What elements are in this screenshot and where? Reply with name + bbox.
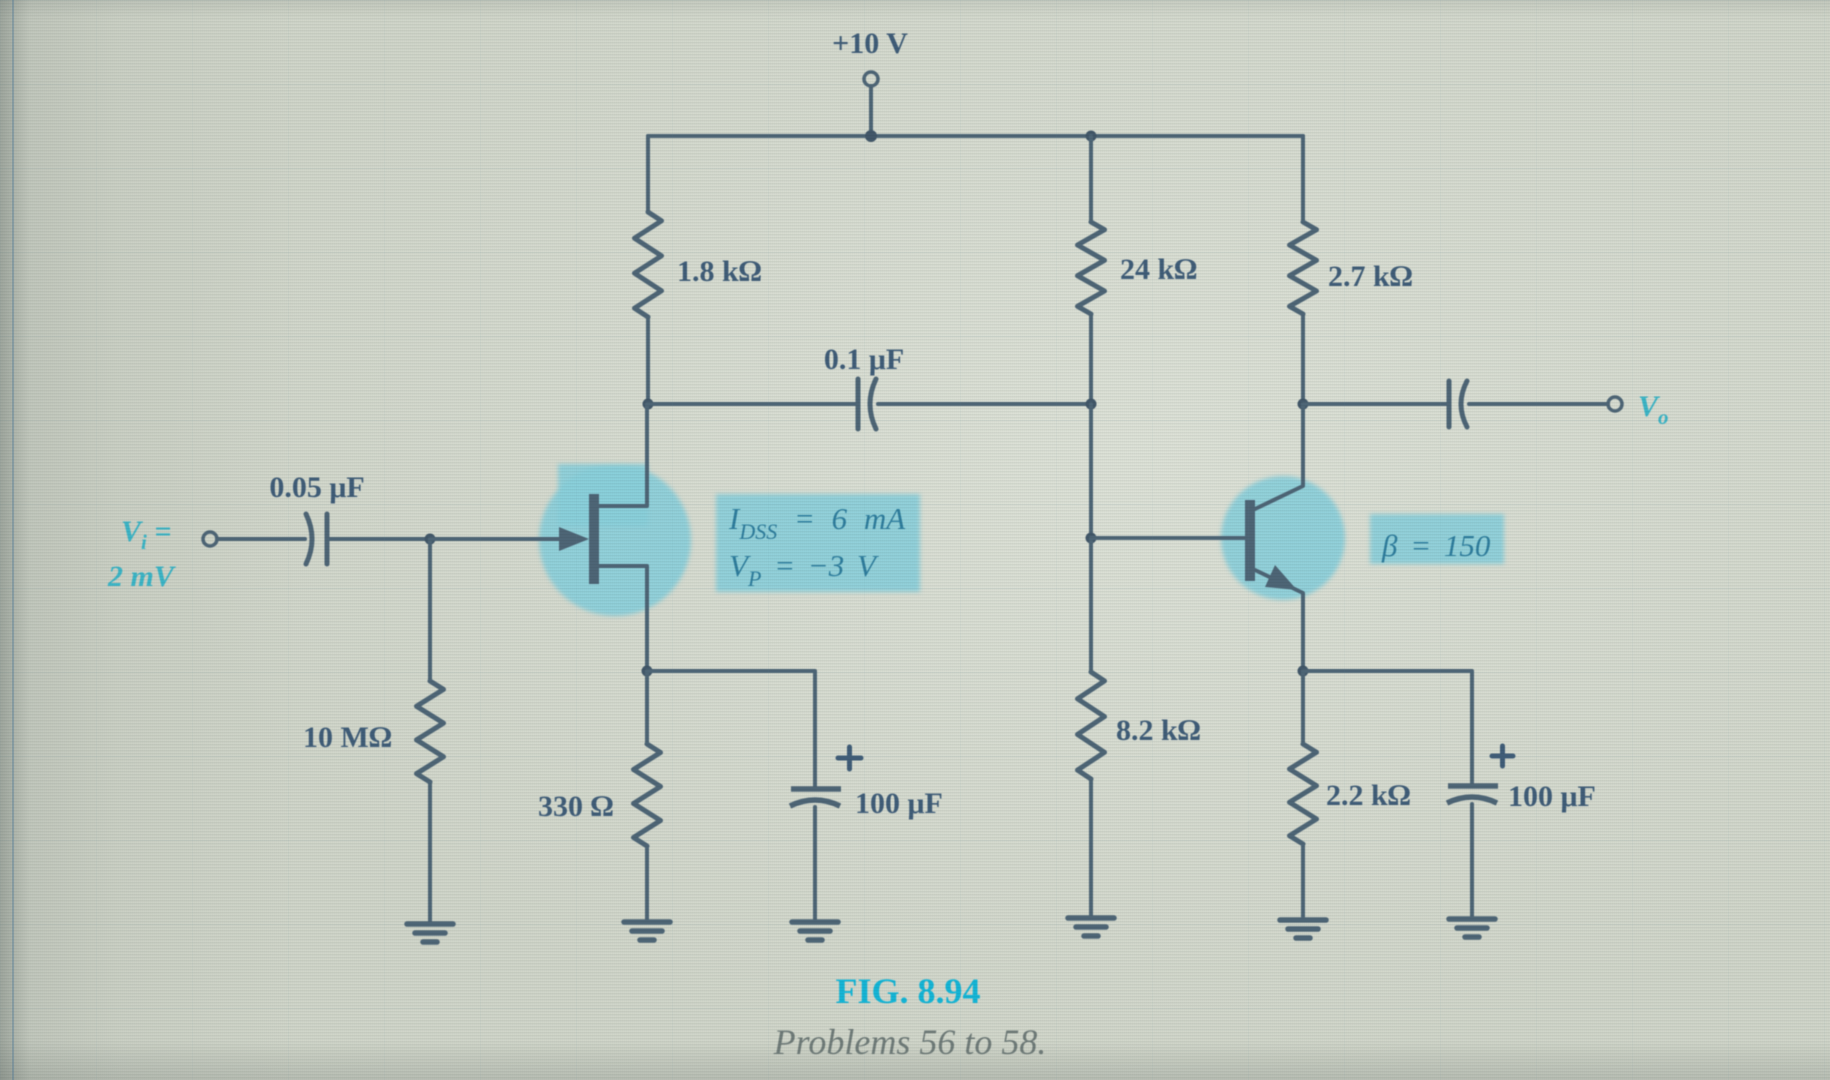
capacitor C_S 100 uF	[790, 789, 841, 806]
node supply junction	[865, 130, 877, 142]
svg-text:2.7 kΩ: 2.7 kΩ	[1328, 260, 1413, 293]
input terminal V_i	[203, 532, 217, 546]
capacitor 0.05 uF	[306, 514, 327, 564]
label 10 MOhm	[303, 721, 392, 754]
caption Problems 56 to 58.	[773, 1022, 1047, 1062]
wire 1.8k bottom lead to drain node	[646, 317, 650, 404]
label 0.1 uF	[824, 343, 904, 376]
wire 10M top lead	[428, 539, 432, 681]
label plus sign source cap	[838, 747, 861, 769]
ground 2.2k	[1280, 920, 1326, 938]
wire top rail	[648, 134, 1303, 138]
wire collector to output cap	[1303, 402, 1447, 406]
resistor R_C 2.7 kOhm	[1290, 222, 1317, 314]
JFET Q1 channel bar	[589, 494, 599, 584]
wire drain node to coupling cap	[648, 402, 856, 406]
wire divider to base node	[1089, 404, 1093, 538]
wire emitter node to emitter bypass cap	[1303, 671, 1472, 783]
wire 24k top lead	[1089, 136, 1093, 222]
label V_P = -3 V	[729, 548, 879, 591]
svg-text:100 μF: 100 μF	[855, 787, 943, 820]
wire 10M bottom lead	[428, 782, 432, 922]
svg-text:1.8 kΩ: 1.8 kΩ	[677, 255, 762, 288]
resistor R1 24 kOhm	[1078, 222, 1105, 314]
caption FIG. 8.94	[835, 971, 980, 1011]
node emitter junction	[1298, 666, 1309, 677]
wire base node to 8.2k	[1089, 538, 1093, 672]
label 2.7 kOhm	[1328, 260, 1413, 293]
svg-text:β = 150: β = 150	[1381, 528, 1491, 563]
BJT Q2 base bar	[1245, 500, 1255, 581]
supply terminal +10 V	[864, 72, 878, 136]
label 100 uF source	[855, 787, 943, 820]
capacitor output coupling	[1449, 381, 1467, 427]
wire emitter cap to ground	[1470, 804, 1474, 917]
wire rail corner to 2.7k	[1301, 136, 1305, 222]
svg-text:100 μF: 100 μF	[1508, 780, 1596, 813]
svg-text:+10 V: +10 V	[832, 27, 908, 60]
resistor R_S 330 Ohm	[634, 744, 661, 846]
wire source node to 330 resistor	[645, 671, 649, 744]
highlight box beta value	[1370, 514, 1504, 564]
wire 330 bottom lead	[645, 846, 649, 920]
svg-text:Vo: Vo	[1638, 390, 1669, 429]
node base junction	[1086, 533, 1097, 544]
resistor R_D 1.8 kOhm	[635, 212, 662, 317]
label 24 kOhm	[1120, 253, 1197, 286]
label V_i	[121, 515, 171, 554]
label 2.2 kOhm	[1326, 779, 1411, 812]
ground 8.2k	[1068, 918, 1114, 936]
wire emitter node to 2.2k	[1301, 671, 1305, 744]
svg-text:2.2 kΩ: 2.2 kΩ	[1326, 779, 1411, 812]
ground 330	[624, 922, 670, 940]
ground emitter cap	[1449, 919, 1495, 937]
node gate junction	[425, 534, 436, 545]
svg-text:2 mV: 2 mV	[107, 560, 177, 593]
node rail 24k junction	[1086, 131, 1097, 142]
wire input terminal to cap	[217, 537, 305, 541]
highlight box JFET parameters	[716, 494, 920, 592]
wire output cap to terminal	[1469, 402, 1608, 406]
capacitor 0.1 uF	[858, 379, 876, 429]
svg-text:0.05 μF: 0.05 μF	[269, 471, 364, 504]
output terminal V_o	[1608, 397, 1622, 411]
label 2 mV	[107, 560, 177, 593]
label V_o	[1638, 390, 1669, 429]
BJT collector lead	[1255, 404, 1303, 509]
wire base wire	[1091, 536, 1246, 540]
resistor R2 8.2 kOhm	[1078, 672, 1105, 779]
label 330 Ohm	[538, 790, 614, 823]
node drain junction	[643, 399, 654, 410]
wire 1.8k top lead	[646, 136, 650, 212]
label I_DSS = 6 mA	[728, 501, 906, 544]
svg-text:8.2 kΩ: 8.2 kΩ	[1116, 714, 1201, 747]
resistor R_G 10 MOhm	[417, 681, 444, 782]
label plus sign emitter cap	[1492, 746, 1513, 766]
node collector junction	[1298, 399, 1309, 410]
wire 2.7k bottom to collector node	[1301, 314, 1305, 404]
label 1.8 kOhm	[677, 255, 762, 288]
wire source node to bypass cap	[647, 671, 815, 786]
svg-text:0.1 μF: 0.1 μF	[824, 343, 904, 376]
wire 8.2k bottom lead	[1089, 779, 1093, 916]
ground bypass cap	[792, 922, 838, 940]
wire coupling cap to divider node	[878, 402, 1091, 406]
label beta = 150	[1381, 528, 1491, 563]
svg-text:Vi =: Vi =	[121, 515, 171, 554]
ground 10M	[407, 924, 453, 942]
svg-text:FIG. 8.94: FIG. 8.94	[835, 971, 980, 1011]
wire 24k bottom to divider node	[1089, 314, 1093, 404]
label 8.2 kOhm	[1116, 714, 1201, 747]
node source junction	[642, 666, 653, 677]
wire bypass cap to ground	[813, 807, 817, 920]
label +10 V	[832, 27, 908, 60]
label 0.05 uF	[269, 471, 364, 504]
wire cap to gate node	[328, 537, 430, 541]
svg-text:330 Ω: 330 Ω	[538, 790, 614, 823]
svg-text:24 kΩ: 24 kΩ	[1120, 253, 1197, 286]
svg-text:10 MΩ: 10 MΩ	[303, 721, 392, 754]
gate arrow of JFET	[559, 527, 589, 551]
wire 2.2k bottom lead	[1301, 844, 1305, 918]
JFET source lead	[599, 566, 647, 671]
emitter arrowhead	[1265, 565, 1297, 590]
BJT emitter lead	[1255, 570, 1303, 671]
resistor R_E 2.2 kOhm	[1290, 744, 1317, 844]
svg-text:Problems 56 to 58.: Problems 56 to 58.	[773, 1022, 1047, 1062]
capacitor C_E 100 uF	[1447, 786, 1498, 803]
wire drain lead of JFET	[599, 404, 647, 506]
label 100 uF emitter	[1508, 780, 1596, 813]
node divider cap junction	[1086, 399, 1097, 410]
highlight circle around BJT Q2	[1221, 476, 1345, 600]
highlight circle around JFET Q1	[539, 464, 691, 616]
wire gate node to JFET gate	[430, 537, 560, 541]
